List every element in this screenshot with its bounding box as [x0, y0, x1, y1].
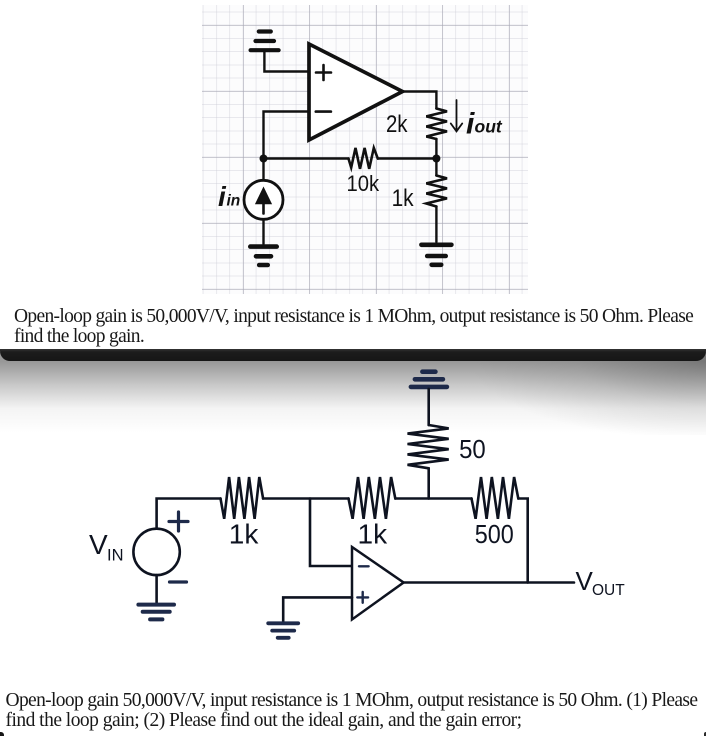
ground G5: [268, 623, 298, 638]
ground G1 (inverted, above op-amp + input): [251, 32, 279, 51]
grid paper panel (top schematic background): [202, 5, 528, 294]
wire - input to node A: [264, 112, 310, 159]
bottom-right corner mark: [704, 732, 706, 736]
wire op-amp output to VOUT: [404, 581, 574, 584]
resistor R50 50: [408, 425, 449, 468]
op-amp U1 - input marker: [316, 110, 331, 113]
bottom-left corner mark: [0, 732, 4, 736]
wire node D to op-amp - input: [310, 499, 352, 567]
wire ground G1 to + input: [264, 52, 309, 72]
svg-text:V: V: [89, 529, 108, 560]
value label 1k: [392, 185, 415, 212]
value label 2k: [386, 110, 408, 137]
ground G6: [138, 605, 174, 620]
bottom paragraph: [6, 691, 698, 731]
svg-text:1k: 1k: [229, 519, 260, 550]
op-amp U2 - input marker: [359, 565, 369, 567]
wire VIN to R6: [157, 499, 221, 529]
resistor R2 10k: [349, 148, 378, 169]
svg-text:OUT: OUT: [592, 582, 625, 599]
resistor R7 1k: [349, 477, 396, 519]
value label 50: [459, 435, 486, 464]
label V_OUT: [576, 566, 626, 599]
wire current source to ground G3: [262, 219, 264, 244]
wire R50 to node C: [427, 468, 430, 498]
node B junction dot: [432, 155, 440, 163]
top paragraph: [14, 307, 693, 346]
svg-text:IN: IN: [107, 547, 124, 565]
grid major lines: [243, 5, 244, 294]
label i_out: [466, 108, 503, 141]
svg-text:50: 50: [459, 435, 486, 464]
wire node A to current source: [262, 159, 264, 181]
shadow gradient under bar: [0, 352, 706, 435]
label i_in: [218, 181, 240, 212]
wire R8 to output: [518, 499, 527, 583]
resistor R3 1k: [426, 176, 447, 207]
svg-text:V: V: [576, 566, 594, 596]
value label 500: [475, 521, 514, 549]
op-amp U1: [309, 44, 403, 140]
ground G4 (inverted, top): [411, 372, 447, 387]
svg-text:500: 500: [475, 521, 514, 549]
wire op-amp output: [403, 92, 437, 109]
wire node A to 10k: [264, 157, 349, 159]
wire VIN to ground G6: [155, 575, 158, 603]
wire node B to R3: [435, 159, 437, 176]
VIN - polarity: [170, 580, 187, 583]
node A junction dot: [260, 155, 268, 163]
resistor R6 1k: [221, 477, 264, 519]
op-amp U1 + input marker: [316, 65, 331, 80]
svg-text:1k: 1k: [358, 519, 389, 550]
ground G3: [250, 247, 276, 265]
black divider bar: [0, 349, 706, 362]
resistor R1 2k: [426, 109, 447, 140]
voltage source VIN: [133, 529, 179, 575]
wire R1 to node B: [435, 139, 437, 159]
op-amp U2 + input marker: [357, 592, 368, 603]
current arrow i_out: [456, 100, 458, 131]
wire op-amp + input to ground G5: [283, 597, 352, 621]
VIN + polarity: [169, 512, 188, 531]
wire ground G4 to R50: [427, 389, 430, 425]
ground G2: [421, 245, 451, 265]
label V_IN: [89, 529, 124, 565]
current source I1: [244, 180, 283, 219]
wire R3 to ground G2: [435, 207, 437, 243]
op-amp U2: [352, 547, 404, 620]
wire R6 to R7 with node D: [263, 497, 348, 500]
value label 10k: [346, 172, 379, 196]
wire 10k to node B: [378, 157, 437, 159]
resistor R8 500: [472, 477, 519, 519]
wire R7 to R8 through node C: [395, 497, 471, 500]
